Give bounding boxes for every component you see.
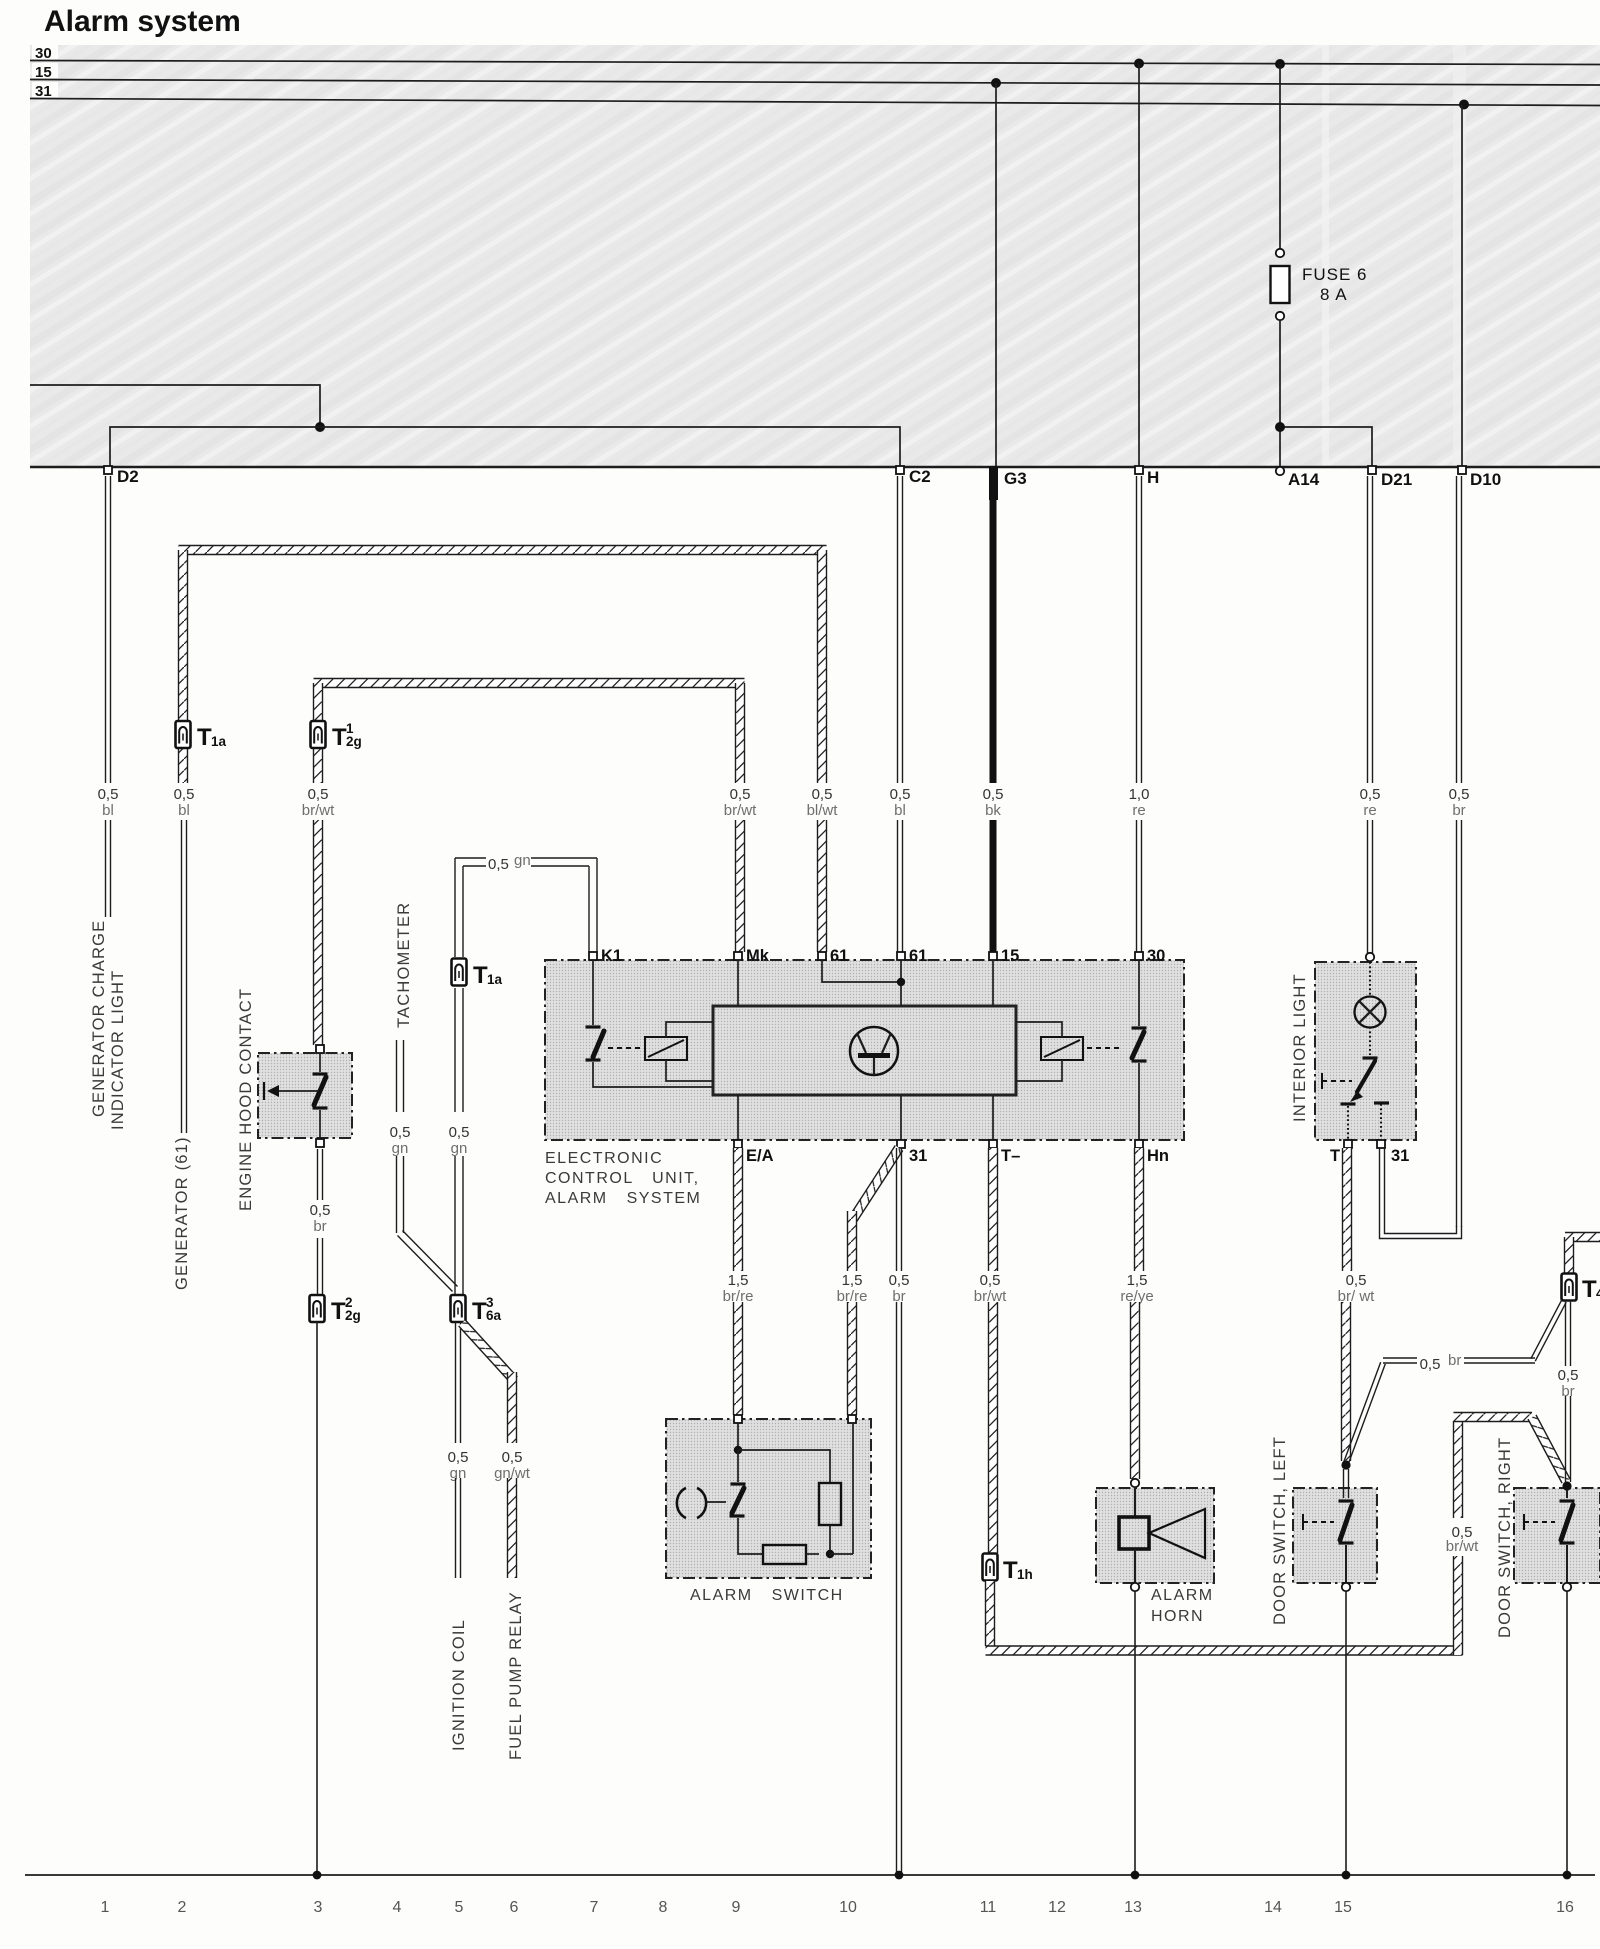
svg-text:ENGINE HOOD CONTACT: ENGINE HOOD CONTACT xyxy=(237,988,255,1211)
svg-text:61: 61 xyxy=(830,947,848,965)
ECU terminal 31 xyxy=(897,1140,905,1148)
svg-text:1a: 1a xyxy=(211,734,227,749)
svg-text:15: 15 xyxy=(35,64,52,81)
terminal D2 xyxy=(104,466,112,474)
hood contact actuator arrow xyxy=(278,1090,318,1092)
interior light bulb xyxy=(1369,962,1371,997)
ECU dashes relay-switch link (left) xyxy=(608,1047,644,1049)
svg-text:A14: A14 xyxy=(1288,470,1320,489)
door switch right actuator xyxy=(1524,1521,1555,1523)
svg-text:31: 31 xyxy=(35,83,52,100)
svg-text:16: 16 xyxy=(1556,1899,1574,1916)
ECU wire Mk to module xyxy=(737,960,739,1006)
wire: bus 30 to H xyxy=(1134,59,1144,69)
svg-text:T: T xyxy=(197,724,212,751)
engine hood contact box xyxy=(258,1053,352,1138)
ECU right relay coil xyxy=(1041,1037,1083,1060)
electronic control unit box xyxy=(545,960,1184,1140)
fuse FUSE 6 8A xyxy=(1271,266,1290,303)
svg-text:0,5: 0,5 xyxy=(310,1202,331,1219)
alarm horn speaker symbol xyxy=(1134,1487,1136,1517)
ECU inner module box xyxy=(713,1006,1016,1095)
ECU wire module to E/A xyxy=(737,1095,739,1140)
svg-text:bl: bl xyxy=(178,802,190,819)
ECU left relay coil xyxy=(645,1037,687,1060)
door switch left box xyxy=(1293,1488,1377,1583)
svg-text:FUSE 6: FUSE 6 xyxy=(1302,265,1368,284)
svg-text:T: T xyxy=(1582,1276,1597,1303)
wire H to ECU 30 (1,0 re) xyxy=(1137,476,1142,783)
interior light box xyxy=(1315,962,1416,1140)
ground junctions xyxy=(313,1871,322,1880)
svg-text:re: re xyxy=(1363,802,1376,819)
ECU dashes relay-switch link (right) xyxy=(1087,1047,1123,1049)
svg-text:T: T xyxy=(1330,1147,1340,1165)
svg-text:0,5: 0,5 xyxy=(390,1124,411,1141)
svg-text:0,5: 0,5 xyxy=(1449,786,1470,803)
hood contact bottom terminal xyxy=(316,1139,324,1147)
svg-text:T: T xyxy=(1003,1557,1018,1584)
svg-text:1,5: 1,5 xyxy=(1127,1272,1148,1289)
fuse F6 terminal circles xyxy=(1276,249,1284,257)
svg-text:1a: 1a xyxy=(487,972,503,987)
svg-text:br: br xyxy=(1561,1383,1574,1400)
connector T1a xyxy=(176,721,191,748)
svg-text:0,5: 0,5 xyxy=(889,1272,910,1289)
interior light terminal T xyxy=(1344,1140,1352,1148)
wire T4 to door switches (0,5 br) xyxy=(1531,1300,1566,1361)
wire ECU K1 up and left via T1a xyxy=(455,858,597,866)
terminal A14 xyxy=(1276,467,1284,475)
wire C2 to ECU 61 (0,5 bl) xyxy=(898,476,903,783)
svg-text:30: 30 xyxy=(35,45,52,62)
svg-text:1,5: 1,5 xyxy=(842,1272,863,1289)
svg-text:15: 15 xyxy=(1334,1899,1352,1916)
door switch right top junction xyxy=(1562,1481,1571,1490)
svg-text:0,5: 0,5 xyxy=(174,786,195,803)
svg-text:13: 13 xyxy=(1124,1899,1142,1916)
svg-text:GENERATOR (61): GENERATOR (61) xyxy=(173,1136,191,1290)
svg-text:0,5: 0,5 xyxy=(890,786,911,803)
svg-text:br/wt: br/wt xyxy=(724,802,757,819)
ECU wire 15 to module xyxy=(992,960,994,1006)
interior light top terminal xyxy=(1366,953,1374,961)
svg-text:DOOR SWITCH, RIGHT: DOOR SWITCH, RIGHT xyxy=(1496,1437,1514,1638)
alarm switch internal wiring xyxy=(737,1423,739,1450)
svg-text:2: 2 xyxy=(178,1899,187,1916)
wire: bus 15 to G3 xyxy=(991,78,1001,88)
wire D21 to interior light (0,5 re) xyxy=(1368,476,1373,783)
svg-text:H: H xyxy=(1147,468,1159,487)
svg-text:0,5: 0,5 xyxy=(98,786,119,803)
hatched wire T- down (0,5 br/wt) xyxy=(989,1148,998,1271)
svg-text:gn: gn xyxy=(392,1140,409,1157)
ECU terminal 61 (left) xyxy=(818,952,826,960)
svg-text:IGNITION COIL: IGNITION COIL xyxy=(450,1619,468,1751)
wire D2 down (0,5 bl) xyxy=(106,476,111,783)
ECU wire module to 31 xyxy=(900,1095,902,1140)
svg-text:T: T xyxy=(472,1298,487,1325)
ECU terminal 30 xyxy=(1135,952,1143,960)
hatched wire run via T2g1 to ECU Mk xyxy=(314,679,745,688)
svg-text:0,5: 0,5 xyxy=(488,856,509,873)
hatched wire Hn to alarm horn (1,5 re/ye) xyxy=(1135,1148,1144,1271)
door switch right contact xyxy=(1566,1490,1568,1498)
hatched wire interior light T to door switch left (0,5 br/wt) xyxy=(1343,1148,1352,1271)
alarm horn box xyxy=(1096,1488,1214,1583)
connector T2g1 xyxy=(311,721,326,748)
connector T4 feed (hatched from sheet edge) xyxy=(1565,1233,1600,1242)
svg-text:12: 12 xyxy=(1048,1899,1066,1916)
wire: D2 to C2 feeder xyxy=(110,427,900,468)
svg-text:HORN: HORN xyxy=(1151,1608,1204,1625)
svg-text:T: T xyxy=(332,724,347,751)
interior light switch xyxy=(1363,1056,1378,1059)
svg-text:br/wt: br/wt xyxy=(1446,1538,1479,1555)
svg-text:ALARM: ALARM xyxy=(1151,1587,1214,1604)
svg-text:5: 5 xyxy=(455,1899,464,1916)
svg-text:3: 3 xyxy=(314,1899,323,1916)
svg-text:7: 7 xyxy=(590,1899,599,1916)
alarm horn bottom terminal xyxy=(1131,1583,1139,1591)
alarm switch key symbol xyxy=(677,1488,686,1518)
svg-text:br: br xyxy=(1448,1352,1461,1369)
svg-text:9: 9 xyxy=(732,1899,741,1916)
wire: fuse to A14/D21 xyxy=(1280,320,1372,467)
svg-text:gn: gn xyxy=(450,1465,467,1482)
ECU wire 61-61 bridge xyxy=(822,960,901,1006)
ECU terminal 61 (right) xyxy=(897,952,905,960)
svg-text:11: 11 xyxy=(980,1899,997,1916)
svg-text:D2: D2 xyxy=(117,467,139,486)
svg-text:8 A: 8 A xyxy=(1320,285,1348,304)
bus bar 15 xyxy=(30,80,1600,86)
wire T6a3 to ignition coil (0,5 gn) xyxy=(456,1322,461,1443)
wire: fuse supply from bus 30 xyxy=(1275,59,1285,69)
svg-text:FUEL PUMP RELAY: FUEL PUMP RELAY xyxy=(507,1591,525,1760)
svg-text:T: T xyxy=(331,1298,346,1325)
svg-text:6a: 6a xyxy=(486,1308,502,1323)
wire D10 down (0,5 br) xyxy=(1457,476,1462,783)
svg-text:0,5: 0,5 xyxy=(1360,786,1381,803)
ECU terminal Hn xyxy=(1135,1140,1143,1148)
terminal D10 xyxy=(1458,466,1466,474)
wire alarm horn to ground rail xyxy=(1134,1591,1136,1875)
svg-text:ALARM SWITCH: ALARM SWITCH xyxy=(690,1587,844,1604)
ECU left switch (K1) xyxy=(592,960,594,1025)
hood contact top terminal xyxy=(316,1045,324,1053)
svg-text:INTERIOR LIGHT: INTERIOR LIGHT xyxy=(1291,973,1309,1122)
interior light terminal 31 xyxy=(1377,1140,1385,1148)
svg-text:gn: gn xyxy=(451,1140,468,1157)
svg-text:E/A: E/A xyxy=(746,1147,774,1165)
svg-text:T–: T– xyxy=(1001,1147,1020,1165)
alarm switch box xyxy=(666,1419,871,1578)
svg-text:0,5: 0,5 xyxy=(983,786,1004,803)
ECU terminal 15 xyxy=(989,952,997,960)
hood contact switch xyxy=(319,1053,321,1072)
door switch left contact xyxy=(1339,1499,1354,1502)
wire hood contact to T2g2 (0,5 br) xyxy=(318,1149,323,1200)
svg-text:3: 3 xyxy=(486,1295,494,1310)
svg-text:0,5: 0,5 xyxy=(1558,1367,1579,1384)
svg-text:1: 1 xyxy=(346,721,354,736)
svg-text:br: br xyxy=(892,1288,905,1305)
ECU transistor xyxy=(850,1027,898,1075)
svg-text:K1: K1 xyxy=(601,947,622,965)
door switch left top junction xyxy=(1341,1460,1350,1469)
svg-text:0,5: 0,5 xyxy=(448,1449,469,1466)
svg-text:ELECTRONIC: ELECTRONIC xyxy=(545,1150,663,1167)
connector T6a3 xyxy=(451,1295,466,1322)
alarm switch resistor (vertical) xyxy=(819,1483,841,1525)
wire tachometer down xyxy=(397,1040,404,1112)
bus bar 31 xyxy=(30,99,1600,106)
svg-text:bl/wt: bl/wt xyxy=(807,802,839,819)
svg-text:bl: bl xyxy=(894,802,906,819)
wire: bus 31 to D10 xyxy=(1459,100,1469,110)
svg-text:INDICATOR LIGHT: INDICATOR LIGHT xyxy=(109,970,127,1130)
svg-text:0,5: 0,5 xyxy=(730,786,751,803)
terminal G3 (heavy) xyxy=(989,466,998,500)
alarm switch terminals xyxy=(734,1415,742,1423)
alarm switch contact xyxy=(737,1450,739,1482)
svg-text:Mk: Mk xyxy=(746,947,770,965)
svg-text:30: 30 xyxy=(1147,947,1165,965)
svg-text:br: br xyxy=(313,1218,326,1235)
svg-text:0,5: 0,5 xyxy=(1420,1356,1441,1373)
svg-text:Hn: Hn xyxy=(1147,1147,1169,1165)
wire generator(61) lower xyxy=(182,820,187,1133)
terminal C2 xyxy=(896,466,904,474)
alarm horn top terminal xyxy=(1131,1479,1139,1487)
wire interior light 31 to D10 xyxy=(1380,1148,1462,1239)
svg-text:D21: D21 xyxy=(1381,470,1412,489)
svg-text:G3: G3 xyxy=(1004,469,1027,488)
svg-text:0,5: 0,5 xyxy=(980,1272,1001,1289)
junction on feeder xyxy=(315,422,325,432)
svg-text:T: T xyxy=(473,962,488,989)
svg-text:10: 10 xyxy=(839,1899,857,1916)
connector T2g2 xyxy=(310,1295,325,1322)
svg-text:4: 4 xyxy=(393,1899,402,1916)
hatched wire E/A to alarm switch (1,5 br/re) xyxy=(734,1148,743,1271)
svg-text:1,5: 1,5 xyxy=(728,1272,749,1289)
door switch left bottom terminal xyxy=(1342,1583,1350,1591)
svg-text:0,5: 0,5 xyxy=(449,1124,470,1141)
svg-text:re: re xyxy=(1132,802,1145,819)
svg-text:TACHOMETER: TACHOMETER xyxy=(395,902,413,1028)
svg-text:31: 31 xyxy=(1391,1147,1409,1165)
svg-text:bl: bl xyxy=(102,802,114,819)
interior light actuator dashes xyxy=(1322,1080,1352,1082)
terminal H xyxy=(1135,466,1143,474)
svg-text:0,5: 0,5 xyxy=(812,786,833,803)
svg-text:2g: 2g xyxy=(345,1308,361,1323)
svg-text:1: 1 xyxy=(101,1899,110,1916)
svg-text:15: 15 xyxy=(1001,947,1019,965)
svg-text:6: 6 xyxy=(510,1899,519,1916)
svg-text:ALARM SYSTEM: ALARM SYSTEM xyxy=(545,1190,701,1207)
ECU terminal E/A xyxy=(734,1140,742,1148)
wire door switch left to ground rail xyxy=(1345,1591,1347,1875)
door switch left actuator xyxy=(1303,1521,1334,1523)
connector T1h xyxy=(983,1554,998,1581)
svg-text:DOOR SWITCH, LEFT: DOOR SWITCH, LEFT xyxy=(1271,1436,1289,1625)
svg-text:4: 4 xyxy=(1596,1286,1600,1301)
svg-text:0,5: 0,5 xyxy=(1346,1272,1367,1289)
ECU terminal T- xyxy=(989,1140,997,1148)
panel bottom border xyxy=(30,466,1600,468)
svg-text:GENERATOR CHARGE: GENERATOR CHARGE xyxy=(90,920,108,1117)
wire: feeder from left sheet edge xyxy=(30,385,320,427)
ECU terminal Mk xyxy=(734,952,742,960)
wire 31 straight to ground rail (0,5 br) xyxy=(897,1148,902,1271)
ECU wire module to T- xyxy=(992,1095,994,1140)
svg-text:61: 61 xyxy=(909,947,927,965)
connector T4 xyxy=(1562,1274,1577,1301)
heavy wire G3 to ECU 15 (0,5 bk) xyxy=(990,500,997,783)
hatched wire T1h loop to door switch right xyxy=(986,1581,995,1646)
wire T4 straight down (0,5 br) xyxy=(1566,1300,1571,1366)
hatched wire T6a3 to fuel pump relay (0,5 gn/wt) xyxy=(459,1320,518,1383)
svg-text:0,5: 0,5 xyxy=(502,1449,523,1466)
alarm switch resistor (horizontal) xyxy=(763,1545,806,1564)
ECU right switch (30-Hn) xyxy=(1138,960,1140,1026)
svg-text:1h: 1h xyxy=(1017,1567,1033,1582)
wire door switch right to ground rail xyxy=(1566,1591,1568,1875)
svg-text:Alarm system: Alarm system xyxy=(44,5,241,38)
connector T1a (ignition) xyxy=(452,959,467,986)
central electric panel (hatched area) xyxy=(30,45,1600,466)
ECU terminal K1 xyxy=(589,952,597,960)
svg-text:2g: 2g xyxy=(346,734,362,749)
svg-text:bk: bk xyxy=(985,802,1001,819)
svg-text:gn: gn xyxy=(514,852,531,869)
door switch right box xyxy=(1514,1488,1600,1583)
svg-text:31: 31 xyxy=(909,1147,927,1165)
svg-text:8: 8 xyxy=(659,1899,668,1916)
hatched wire run via T1a to ECU 61 xyxy=(179,546,827,555)
svg-text:D10: D10 xyxy=(1470,470,1501,489)
svg-text:br/wt: br/wt xyxy=(302,802,335,819)
svg-text:CONTROL UNIT,: CONTROL UNIT, xyxy=(545,1170,700,1187)
terminal D21 xyxy=(1368,466,1376,474)
door switch right bottom terminal xyxy=(1563,1583,1571,1591)
svg-text:1,0: 1,0 xyxy=(1129,786,1150,803)
hatched wire 31 diagonal to alarm switch (1,5 br/re) xyxy=(849,1146,903,1222)
svg-text:C2: C2 xyxy=(909,467,931,486)
svg-text:br: br xyxy=(1452,802,1465,819)
svg-text:2: 2 xyxy=(345,1295,353,1310)
ground rail xyxy=(25,1874,1595,1876)
svg-text:0,5: 0,5 xyxy=(308,786,329,803)
bus bar 30 xyxy=(30,61,1600,65)
wire T2g2 to ground rail xyxy=(316,1322,318,1875)
svg-text:14: 14 xyxy=(1264,1899,1282,1916)
